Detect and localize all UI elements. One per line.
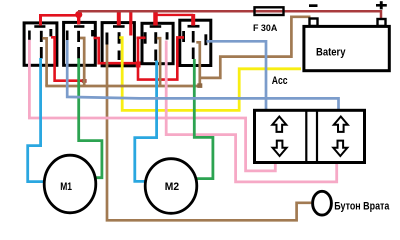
wire brown ground net xyxy=(42,17,310,86)
node red bus junction dot xyxy=(75,11,82,18)
wire brown to battery minus xyxy=(200,17,311,78)
battery minus terminal xyxy=(310,19,318,27)
fuse F1 xyxy=(253,7,284,34)
relay K1 pin 87a right xyxy=(49,29,52,36)
wire red down from junction xyxy=(138,37,184,79)
switch S2 up arrow xyxy=(334,117,348,132)
wire red drop to K3 xyxy=(117,13,121,26)
relay K1 pin 86 top bar xyxy=(34,25,45,28)
wire blue K2 to switches xyxy=(67,40,338,110)
relay K5 pin 87a right xyxy=(204,34,207,45)
relay K2 pin 87 mid lower xyxy=(77,47,80,59)
svg-text:M1: M1 xyxy=(60,181,72,193)
relay K5 pin 30 mid upper xyxy=(192,31,195,43)
svg-text:F 30A: F 30A xyxy=(253,23,277,34)
relay K1 pin 85 left xyxy=(28,31,31,41)
wire red drop to K1 xyxy=(39,14,42,26)
wire red drop to K2 xyxy=(77,14,80,25)
relay K3 pin 30 mid upper xyxy=(118,32,121,44)
switch S1 up arrow xyxy=(272,117,286,132)
switch divider right xyxy=(316,110,318,162)
motor M2 xyxy=(145,159,197,214)
switch S1 down arrow xyxy=(273,141,287,156)
wire yellow Acc net xyxy=(119,38,301,111)
wire brown button net xyxy=(107,45,311,221)
svg-text:M2: M2 xyxy=(165,181,179,193)
wire red K1 internal to bottom xyxy=(51,37,86,80)
wire red drop to K5 xyxy=(156,14,194,16)
wire pink K1 to left switch xyxy=(29,40,275,171)
wire battery positive line (dark red) xyxy=(78,11,381,19)
relay K5 pin 85 left xyxy=(182,31,185,42)
relay K3 pin 85 left xyxy=(106,33,109,45)
svg-text:Бутон Врата: Бутон Врата xyxy=(334,200,390,212)
relay K2 pin 87a right xyxy=(91,30,94,36)
wire red K2 to K4/K5 net xyxy=(94,37,185,79)
relay K3 pin 86 top bar xyxy=(113,25,125,28)
wire red stub K3 right xyxy=(129,11,132,36)
wire red riser to K4 left pin xyxy=(137,38,139,63)
wire cyan K4 to M2 xyxy=(135,61,157,182)
battery plus terminal xyxy=(378,19,386,26)
wire green K5 to M2 xyxy=(194,59,213,179)
relay K2 pin 86 top bar xyxy=(74,25,84,28)
motor M1 xyxy=(44,155,96,213)
wire brown K5 drop xyxy=(196,42,200,86)
relay K1 pin 30 mid upper xyxy=(40,31,43,42)
switch S2 down arrow xyxy=(333,141,347,156)
wire red drop to K4 xyxy=(153,12,158,26)
relay K4 pin 30 mid upper xyxy=(154,32,157,44)
wire red supply bus xyxy=(40,11,193,36)
wire brown K4 drop xyxy=(157,38,160,86)
node brown junction at K5 xyxy=(197,83,202,88)
relay K2 xyxy=(64,22,96,65)
relay K5 xyxy=(180,20,211,65)
relay K4 pin 87 mid lower xyxy=(154,50,157,62)
wire pink K4 to right switch xyxy=(166,41,337,182)
battery BT1 xyxy=(304,1,389,71)
battery plus sign xyxy=(376,4,387,7)
svg-text:Batery: Batery xyxy=(316,47,346,59)
wire brown horizontal under relays xyxy=(45,85,200,88)
wire brown K2 drop xyxy=(80,38,84,86)
wire cyan K1 to M1 xyxy=(28,58,44,182)
relay K4 xyxy=(142,23,173,63)
wire blue K5 to left switch xyxy=(207,41,267,110)
wire brown K1 elbow down xyxy=(42,38,46,86)
relay K1 xyxy=(24,23,57,65)
relay K2 pin 30 mid upper xyxy=(77,31,80,42)
relay K2 pin 85 left xyxy=(66,31,69,41)
relay K5 pin 87 mid lower xyxy=(192,48,195,60)
relay K3 xyxy=(102,23,134,66)
relay K4 pin 86 top bar xyxy=(150,25,162,28)
wire red into K4 left pin xyxy=(137,36,146,39)
node dark red junction at brown xyxy=(82,79,87,83)
button door switch xyxy=(313,191,391,215)
node red junction gap34 xyxy=(136,62,141,68)
switch panel S1/S2 xyxy=(255,110,365,162)
battery body xyxy=(304,26,389,70)
relay K1 pin 87 mid lower xyxy=(40,47,43,59)
wire red K2 right exit xyxy=(94,38,139,63)
switch divider left xyxy=(305,110,307,162)
battery minus sign xyxy=(309,4,318,7)
svg-text:Acc: Acc xyxy=(272,75,288,87)
relay K4 pin 87a right xyxy=(166,32,169,39)
relay K3 pin 87 mid lower xyxy=(118,51,121,61)
wire green K2 to M1 xyxy=(79,58,102,177)
relay K4 pin 85 left xyxy=(144,32,147,44)
relay K5 pin 86 top bar xyxy=(188,25,200,28)
wire red bus horizontal xyxy=(40,14,79,17)
